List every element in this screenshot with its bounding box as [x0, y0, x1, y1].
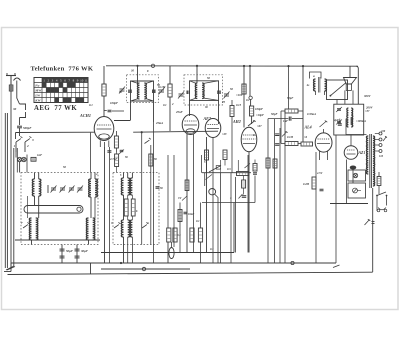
svg-text:200V: 200V — [365, 106, 374, 110]
svg-text:500pF: 500pF — [23, 126, 32, 130]
svg-text:4.5V: 4.5V — [316, 172, 323, 175]
svg-text:10: 10 — [80, 79, 84, 83]
svg-text:25: 25 — [221, 100, 226, 104]
svg-text:25nF: 25nF — [175, 110, 183, 114]
svg-text:KW: KW — [34, 98, 41, 102]
svg-text:50μF: 50μF — [66, 249, 74, 253]
svg-text:0.1: 0.1 — [196, 219, 200, 223]
svg-text:220: 220 — [380, 130, 386, 133]
svg-text:AZ1: AZ1 — [358, 151, 366, 155]
svg-text:=10V: =10V — [236, 93, 244, 97]
svg-text:Telefunken 776 WK: Telefunken 776 WK — [31, 66, 94, 73]
svg-text:30: 30 — [204, 106, 208, 109]
svg-text:=185mA: =185mA — [356, 120, 366, 123]
svg-text:50pF: 50pF — [287, 96, 293, 100]
svg-text:0.1: 0.1 — [246, 98, 250, 102]
svg-text:30: 30 — [130, 69, 134, 73]
svg-text:30: 30 — [12, 107, 17, 111]
svg-text:30: 30 — [118, 90, 122, 94]
svg-text:0.1M: 0.1M — [159, 85, 166, 89]
svg-text:AL4: AL4 — [304, 125, 312, 130]
svg-text:1nF: 1nF — [283, 119, 288, 123]
svg-text:110: 110 — [379, 155, 384, 158]
svg-text:0.3: 0.3 — [227, 167, 231, 171]
svg-text:0.1: 0.1 — [253, 134, 257, 137]
svg-text:AH2: AH2 — [232, 119, 241, 124]
svg-text:4μF: 4μF — [333, 119, 339, 122]
svg-text:100pF: 100pF — [110, 101, 118, 105]
svg-text:AEG 77 WK: AEG 77 WK — [34, 105, 77, 112]
svg-text:=10pF: =10pF — [256, 113, 264, 117]
svg-text:LW: LW — [34, 93, 41, 97]
svg-text:=67: =67 — [257, 124, 262, 128]
svg-text:300V: 300V — [363, 94, 372, 98]
svg-text:Fu: Fu — [35, 83, 39, 87]
svg-text:1nF: 1nF — [37, 153, 42, 157]
svg-text:0.1: 0.1 — [163, 103, 167, 107]
svg-text:50pF: 50pF — [271, 112, 278, 116]
svg-text:0.1: 0.1 — [210, 247, 214, 251]
svg-text:0.2M: 0.2M — [303, 183, 309, 186]
svg-text:2.7nF: 2.7nF — [109, 157, 117, 161]
svg-text:2: 2 — [26, 144, 29, 148]
svg-text:25mA: 25mA — [155, 121, 163, 125]
svg-text:0.15: 0.15 — [236, 103, 242, 107]
svg-text:0.4: 0.4 — [177, 233, 181, 237]
svg-text:0.35mA: 0.35mA — [307, 113, 316, 116]
svg-text:10nF: 10nF — [188, 213, 194, 216]
svg-text:3: 3 — [31, 138, 34, 142]
svg-text:11: 11 — [84, 79, 87, 83]
svg-text:=57: =57 — [365, 110, 370, 113]
svg-text:0.1M: 0.1M — [287, 136, 293, 139]
svg-text:100pF: 100pF — [255, 107, 263, 111]
svg-text:30μF: 30μF — [80, 249, 89, 253]
svg-text:MW: MW — [34, 88, 42, 92]
svg-text:ACH1: ACH1 — [79, 113, 91, 118]
svg-text:0.1: 0.1 — [89, 103, 93, 107]
